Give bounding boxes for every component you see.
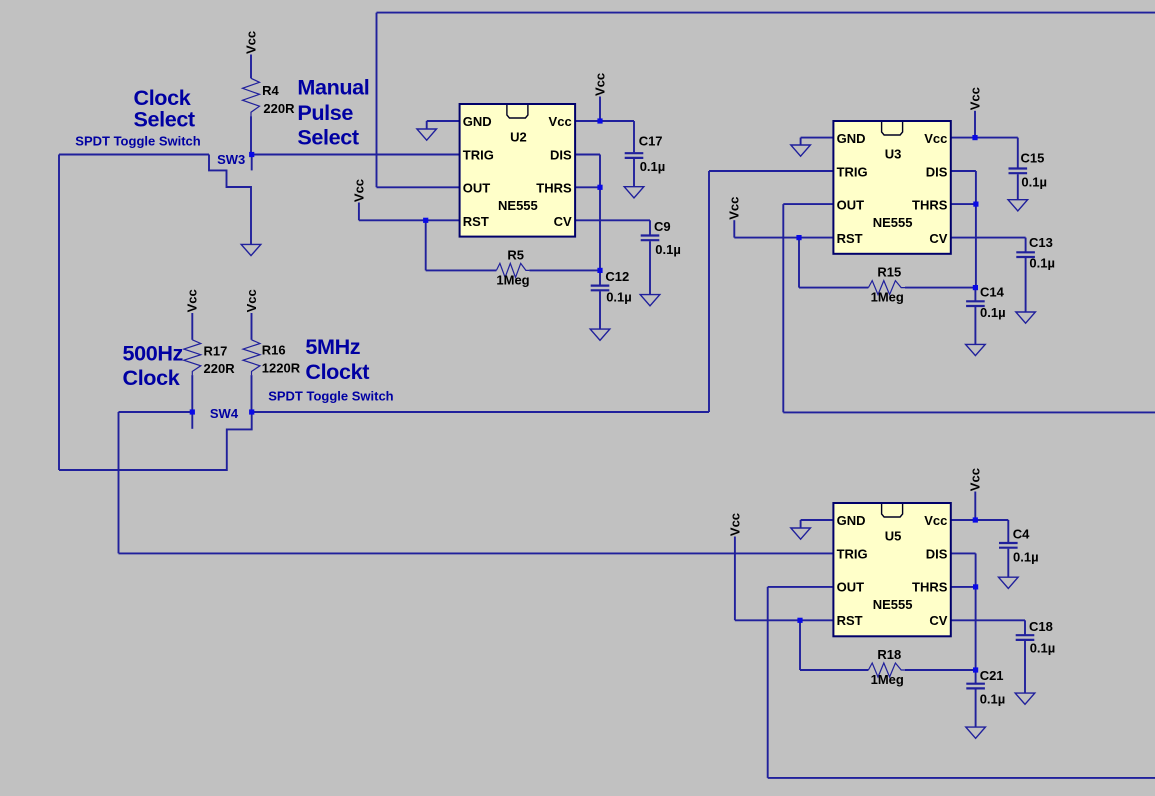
svg-text:Vcc: Vcc bbox=[549, 114, 572, 129]
svg-text:NE555: NE555 bbox=[873, 215, 913, 230]
svg-text:TRIG: TRIG bbox=[837, 165, 868, 180]
svg-text:GND: GND bbox=[463, 114, 492, 129]
svg-text:C9: C9 bbox=[654, 219, 671, 234]
svg-text:Vcc: Vcc bbox=[592, 73, 607, 96]
svg-text:TRIG: TRIG bbox=[837, 547, 868, 562]
svg-text:0.1µ: 0.1µ bbox=[655, 242, 681, 257]
svg-text:220R: 220R bbox=[263, 101, 295, 116]
svg-text:RST: RST bbox=[463, 214, 489, 229]
svg-text:CV: CV bbox=[929, 613, 947, 628]
svg-text:U2: U2 bbox=[510, 129, 527, 144]
svg-text:CV: CV bbox=[929, 231, 947, 246]
svg-text:1220R: 1220R bbox=[262, 361, 301, 376]
svg-text:Vcc: Vcc bbox=[924, 513, 947, 528]
svg-text:Vcc: Vcc bbox=[244, 289, 259, 312]
svg-text:DIS: DIS bbox=[926, 547, 948, 562]
svg-text:NE555: NE555 bbox=[498, 198, 538, 213]
svg-text:SPDT Toggle Switch: SPDT Toggle Switch bbox=[75, 134, 200, 149]
svg-text:SW4: SW4 bbox=[210, 406, 239, 421]
svg-text:U3: U3 bbox=[885, 146, 902, 161]
svg-text:GND: GND bbox=[837, 131, 866, 146]
svg-text:THRS: THRS bbox=[536, 181, 572, 196]
svg-text:Select: Select bbox=[134, 106, 195, 131]
svg-text:OUT: OUT bbox=[837, 198, 865, 213]
svg-text:Vcc: Vcc bbox=[727, 513, 742, 536]
svg-text:C18: C18 bbox=[1029, 619, 1053, 634]
svg-text:U5: U5 bbox=[885, 528, 902, 543]
svg-text:SW3: SW3 bbox=[217, 152, 245, 167]
svg-text:R4: R4 bbox=[262, 83, 279, 98]
svg-text:C13: C13 bbox=[1029, 235, 1053, 250]
svg-text:OUT: OUT bbox=[463, 181, 491, 196]
svg-text:0.1µ: 0.1µ bbox=[606, 290, 632, 305]
svg-text:C21: C21 bbox=[980, 668, 1004, 683]
svg-text:CV: CV bbox=[554, 214, 572, 229]
svg-text:C17: C17 bbox=[639, 133, 663, 148]
svg-text:0.1µ: 0.1µ bbox=[640, 159, 666, 174]
svg-text:1Meg: 1Meg bbox=[871, 672, 904, 687]
svg-text:0.1µ: 0.1µ bbox=[1029, 256, 1055, 271]
svg-text:0.1µ: 0.1µ bbox=[980, 692, 1006, 707]
svg-text:0.1µ: 0.1µ bbox=[1030, 641, 1056, 656]
svg-text:GND: GND bbox=[837, 513, 866, 528]
svg-text:C14: C14 bbox=[980, 284, 1005, 299]
svg-text:C12: C12 bbox=[605, 269, 629, 284]
svg-text:0.1µ: 0.1µ bbox=[1021, 175, 1047, 190]
svg-text:THRS: THRS bbox=[912, 580, 948, 595]
svg-text:DIS: DIS bbox=[926, 165, 948, 180]
svg-text:Vcc: Vcc bbox=[968, 468, 983, 491]
svg-text:DIS: DIS bbox=[550, 148, 572, 163]
svg-text:SPDT Toggle Switch: SPDT Toggle Switch bbox=[268, 388, 393, 403]
svg-text:Pulse: Pulse bbox=[297, 100, 353, 125]
svg-text:Manual: Manual bbox=[297, 75, 369, 100]
svg-text:C15: C15 bbox=[1021, 151, 1045, 166]
svg-text:5MHz: 5MHz bbox=[305, 334, 360, 359]
svg-text:R15: R15 bbox=[877, 265, 901, 280]
svg-text:C4: C4 bbox=[1013, 526, 1030, 541]
svg-text:500Hz: 500Hz bbox=[123, 340, 184, 365]
svg-text:Vcc: Vcc bbox=[727, 197, 742, 220]
svg-text:R5: R5 bbox=[507, 247, 524, 262]
svg-text:R17: R17 bbox=[204, 344, 228, 359]
svg-text:0.1µ: 0.1µ bbox=[980, 305, 1006, 320]
svg-text:Vcc: Vcc bbox=[243, 31, 258, 54]
svg-text:Select: Select bbox=[297, 125, 358, 150]
svg-text:0.1µ: 0.1µ bbox=[1013, 550, 1039, 565]
svg-text:Vcc: Vcc bbox=[185, 289, 200, 312]
svg-text:220R: 220R bbox=[204, 361, 236, 376]
svg-text:Clock: Clock bbox=[123, 365, 181, 390]
svg-text:OUT: OUT bbox=[837, 580, 865, 595]
svg-text:RST: RST bbox=[837, 613, 863, 628]
svg-text:Vcc: Vcc bbox=[351, 179, 366, 202]
svg-text:R16: R16 bbox=[262, 343, 286, 358]
svg-text:1Meg: 1Meg bbox=[496, 272, 529, 287]
svg-text:Vcc: Vcc bbox=[967, 87, 982, 110]
svg-text:RST: RST bbox=[837, 231, 863, 246]
svg-text:1Meg: 1Meg bbox=[871, 290, 904, 305]
svg-text:THRS: THRS bbox=[912, 198, 948, 213]
svg-text:TRIG: TRIG bbox=[463, 148, 494, 163]
svg-text:Vcc: Vcc bbox=[924, 131, 947, 146]
svg-text:NE555: NE555 bbox=[873, 597, 913, 612]
svg-text:Clockt: Clockt bbox=[305, 359, 369, 384]
svg-text:R18: R18 bbox=[877, 647, 901, 662]
